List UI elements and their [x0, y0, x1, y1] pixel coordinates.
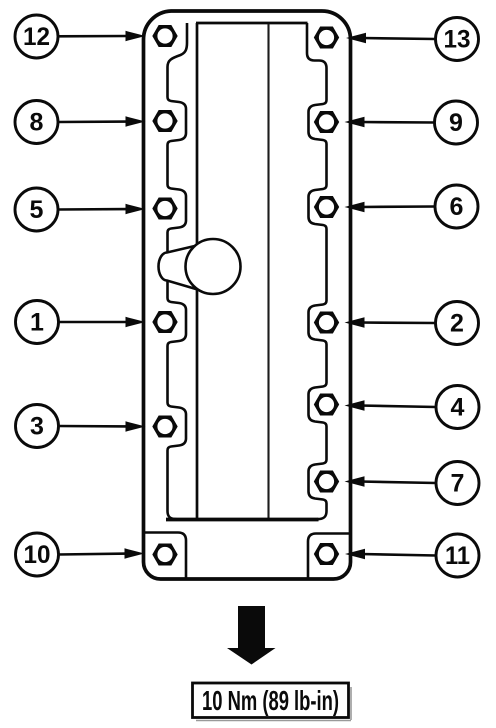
callout 3	[16, 405, 146, 448]
callout 8	[15, 101, 146, 144]
svg-text:13: 13	[444, 26, 471, 54]
bolt 9 (hex)	[314, 111, 339, 133]
callout 6	[345, 185, 479, 228]
callout 5	[15, 188, 146, 231]
callout 9	[345, 101, 478, 144]
bolt 4 (hex)	[314, 394, 339, 416]
oil filler cap circle	[186, 239, 241, 294]
svg-text:4: 4	[451, 394, 465, 422]
bolt 11 (hex)	[314, 543, 339, 565]
inner panel left edge	[196, 23, 199, 519]
bolt 7 (hex)	[314, 471, 339, 493]
svg-text:5: 5	[30, 196, 44, 224]
inner panel top edge	[196, 22, 308, 25]
callout 13	[346, 18, 479, 61]
bolt 3 (hex)	[152, 416, 177, 438]
oil filler neck	[159, 245, 202, 291]
svg-text:10 Nm (89 lb-in): 10 Nm (89 lb-in)	[202, 685, 339, 716]
inner panel bottom edge	[166, 518, 319, 522]
svg-text:1: 1	[30, 309, 44, 337]
bolt 10 (hex)	[152, 544, 177, 566]
bolt 12 (hex)	[152, 25, 177, 47]
callout 11	[345, 534, 479, 577]
torque direction arrow	[227, 606, 276, 665]
torque label box	[193, 683, 352, 721]
bolt 13 (hex)	[314, 27, 339, 49]
bottom-right bolt boss	[308, 534, 350, 579]
bolt 8 (hex)	[152, 110, 177, 132]
callout 1	[16, 301, 146, 344]
callout 2	[345, 302, 479, 345]
svg-text:8: 8	[30, 109, 44, 137]
svg-text:10: 10	[24, 541, 51, 569]
callout 7	[345, 462, 480, 505]
center rib line	[267, 24, 269, 518]
right scalloped flange contour	[307, 23, 327, 519]
svg-text:9: 9	[449, 109, 463, 137]
callout 4	[345, 386, 480, 429]
bolt 6 (hex)	[314, 196, 339, 218]
svg-text:6: 6	[450, 193, 464, 221]
svg-text:7: 7	[451, 470, 465, 498]
svg-text:11: 11	[445, 542, 470, 570]
bottom-left bolt boss	[144, 533, 186, 579]
valve cover outer outline	[144, 11, 351, 579]
bolt 5 (hex)	[152, 198, 177, 220]
bolt 1 (hex)	[152, 311, 177, 333]
bolt 2 (hex)	[314, 312, 339, 334]
svg-text:12: 12	[23, 23, 50, 51]
callout 10	[16, 533, 145, 576]
svg-text:2: 2	[450, 310, 464, 338]
callout 12	[15, 15, 146, 58]
left scalloped flange contour	[168, 23, 188, 519]
svg-text:3: 3	[30, 413, 44, 441]
